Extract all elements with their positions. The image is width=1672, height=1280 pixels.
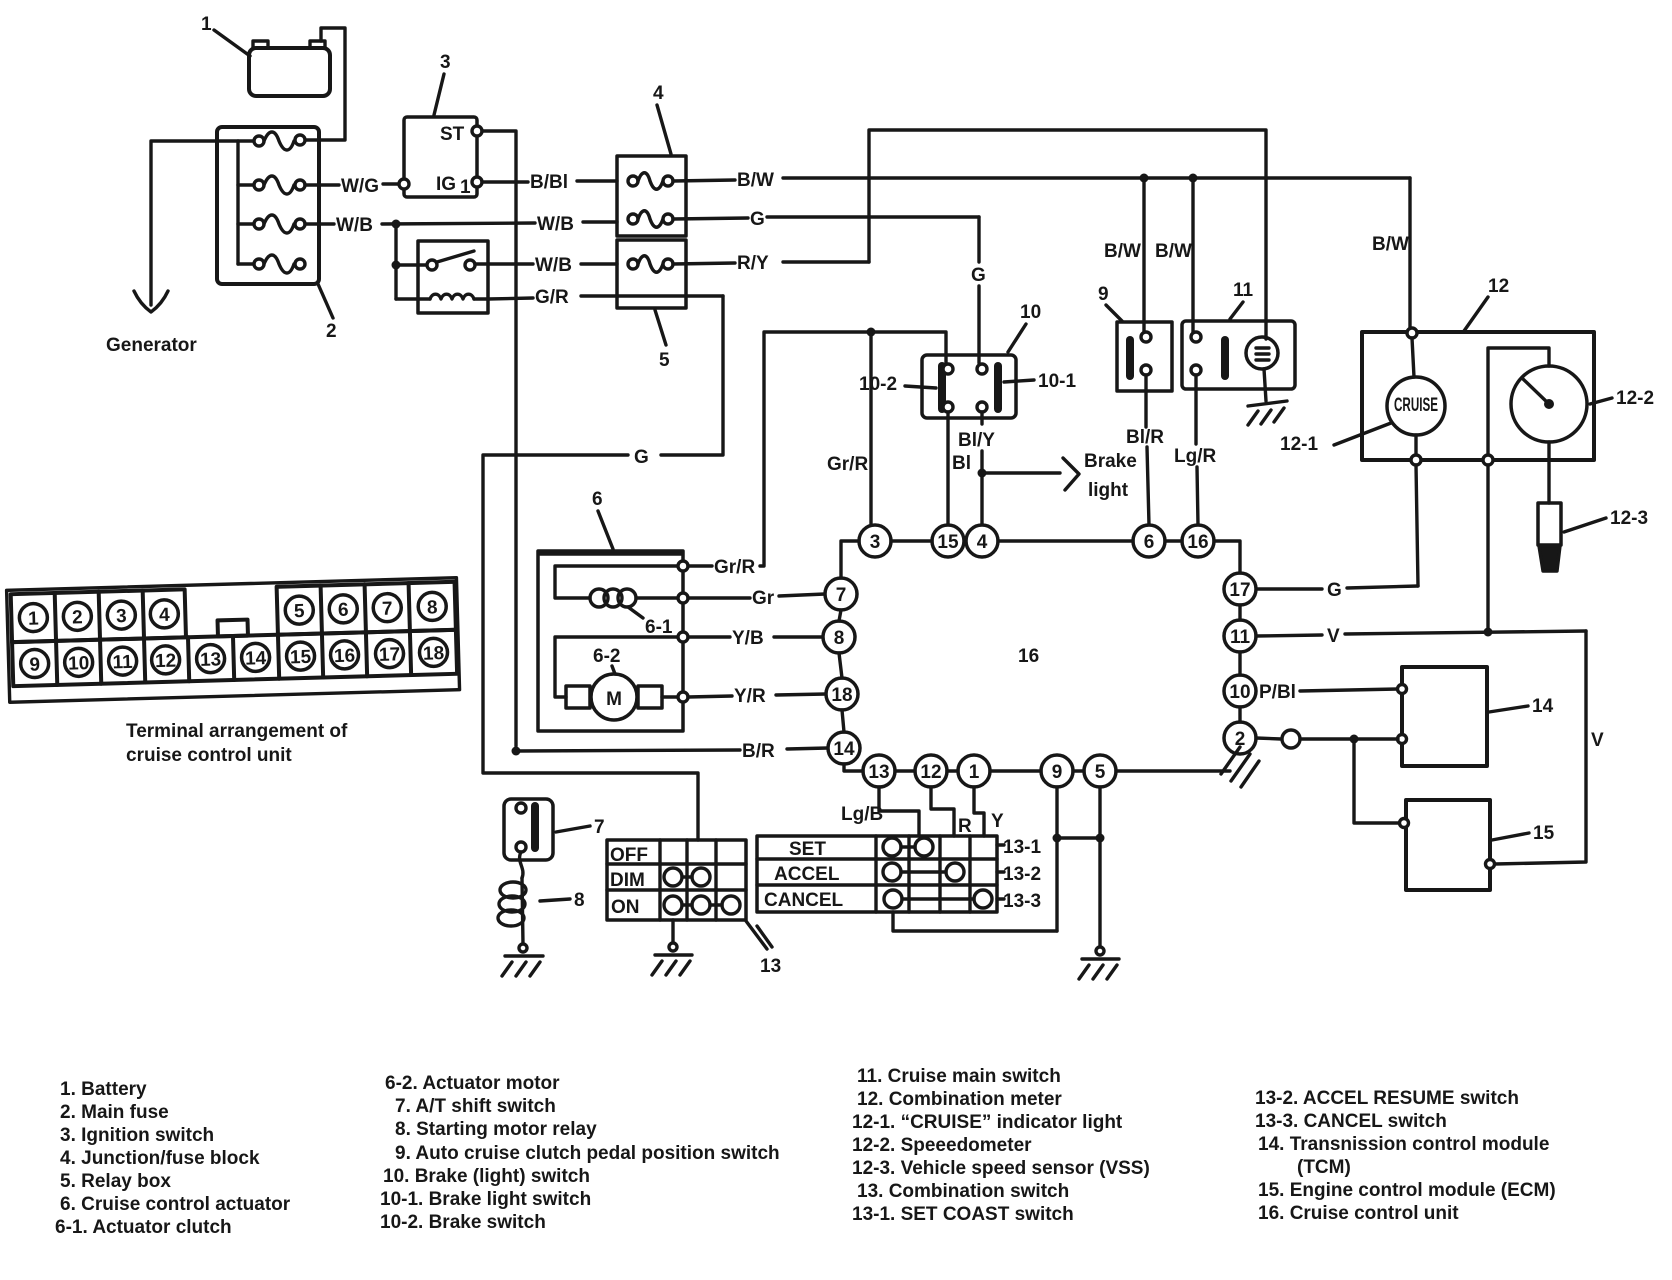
wire Y/B to pin 8 xyxy=(688,628,823,649)
svg-text:Terminal arrangement of: Terminal arrangement of xyxy=(126,721,348,742)
ECM box 15 xyxy=(1400,800,1495,890)
cruise control actuator 6 xyxy=(538,551,683,731)
wire B/R to pin 14 xyxy=(516,741,828,762)
svg-text:13-2: 13-2 xyxy=(1003,864,1041,885)
wire G long run to ON-OFF switch xyxy=(483,296,723,840)
wire speedometer feed xyxy=(1488,348,1549,455)
pin 12 xyxy=(915,755,947,787)
svg-text:Lg/R: Lg/R xyxy=(1174,446,1216,467)
terminal 18 xyxy=(419,638,448,667)
legend column 1 xyxy=(55,1079,291,1238)
wire cruise lamp down xyxy=(1414,435,1417,455)
node B/R junction xyxy=(512,747,521,756)
label 12-1 xyxy=(1280,423,1391,455)
wire Bl/R to pin 6 xyxy=(1126,375,1164,525)
svg-text:G: G xyxy=(971,265,986,286)
svg-text:11: 11 xyxy=(1233,280,1254,301)
pin 7 xyxy=(825,578,857,610)
svg-text:8: 8 xyxy=(574,890,585,911)
label 7 xyxy=(556,817,605,838)
svg-text:4: 4 xyxy=(653,83,664,104)
node actuator pin Y/R xyxy=(678,692,688,702)
svg-text:CANCEL: CANCEL xyxy=(764,890,844,911)
svg-text:18: 18 xyxy=(423,643,445,665)
svg-text:2: 2 xyxy=(326,321,337,342)
svg-text:9: 9 xyxy=(1052,762,1063,783)
legend column 3 xyxy=(852,1066,1150,1225)
lamp in switch 11 xyxy=(1246,337,1278,369)
pin 16 xyxy=(1182,525,1214,557)
svg-text:ACCEL: ACCEL xyxy=(774,864,840,885)
svg-text:Bl/R: Bl/R xyxy=(1126,427,1164,448)
svg-text:6-2. Actuator motor: 6-2. Actuator motor xyxy=(385,1073,560,1094)
svg-text:W/G: W/G xyxy=(341,176,379,197)
wire W/B branch to relay xyxy=(394,224,397,299)
label 4 (junction/fuse block) xyxy=(653,83,671,154)
svg-text:9. Auto cruise clutch pedal po: 9. Auto cruise clutch pedal position swi… xyxy=(395,1143,780,1164)
svg-text:5. Relay box: 5. Relay box xyxy=(60,1171,171,1192)
node brake light tap xyxy=(978,469,987,478)
terminal 13 xyxy=(196,644,225,673)
wire B/W to box11 xyxy=(1155,178,1193,332)
label 6-1 xyxy=(628,607,673,638)
svg-text:B/W: B/W xyxy=(1155,241,1192,262)
SET COAST contacts 13-1 xyxy=(883,837,1041,858)
terminal arrangement caption xyxy=(126,721,348,766)
wire generator feed xyxy=(151,141,254,305)
terminal 4 xyxy=(150,600,179,629)
svg-text:Y/R: Y/R xyxy=(734,686,766,707)
svg-text:13-3. CANCEL switch: 13-3. CANCEL switch xyxy=(1255,1111,1447,1132)
wire speedometer to VSS xyxy=(1547,442,1550,503)
pin 3 xyxy=(859,525,891,557)
svg-text:IG: IG xyxy=(436,174,456,195)
svg-text:15: 15 xyxy=(937,532,959,553)
wire Bl to pin 15 xyxy=(948,412,971,525)
wire pin18 to pin14 xyxy=(842,710,844,732)
wire battery to main fuse xyxy=(305,28,345,140)
label 6-2 xyxy=(593,646,620,674)
label 15 xyxy=(1492,823,1555,844)
label 12 xyxy=(1464,276,1509,331)
svg-text:6-1: 6-1 xyxy=(645,617,673,638)
label 1 (battery) xyxy=(201,14,250,56)
relay box 5 xyxy=(617,240,686,308)
svg-text:M: M xyxy=(606,689,622,710)
terminal 8 xyxy=(418,592,447,621)
label 5 (relay box) xyxy=(655,310,670,371)
svg-text:18: 18 xyxy=(831,685,852,706)
svg-text:10-2. Brake switch: 10-2. Brake switch xyxy=(380,1212,546,1233)
node meter top xyxy=(1407,328,1417,338)
wire Bl/Y to pin 4 xyxy=(958,412,995,525)
svg-text:1: 1 xyxy=(460,177,471,198)
pin 11 xyxy=(1224,620,1256,652)
svg-text:6. Cruise control actuator: 6. Cruise control actuator xyxy=(60,1194,291,1215)
svg-text:10: 10 xyxy=(68,653,90,675)
DIM contacts xyxy=(664,868,710,886)
svg-text:8. Starting motor relay: 8. Starting motor relay xyxy=(395,1119,597,1140)
wire pin17 to pin11 xyxy=(1238,605,1241,620)
svg-text:ON: ON xyxy=(611,897,640,918)
terminal 2 xyxy=(63,602,92,631)
svg-text:3: 3 xyxy=(870,532,881,553)
combination meter 12 xyxy=(1362,332,1594,460)
svg-text:W/B: W/B xyxy=(535,255,572,276)
svg-text:13: 13 xyxy=(868,762,889,783)
svg-text:4: 4 xyxy=(159,605,171,626)
vehicle speed sensor 12-3 xyxy=(1538,503,1561,571)
svg-text:3: 3 xyxy=(440,52,451,73)
combination switch table 13 (SET/ACCEL/CANCEL) xyxy=(757,836,997,912)
pin 18 xyxy=(826,678,858,710)
terminal 16 xyxy=(330,641,359,670)
wire pin1 to pin9 xyxy=(990,769,1041,772)
svg-text:6-2: 6-2 xyxy=(593,646,620,667)
wire Gr/R to pin 3 xyxy=(827,332,871,525)
wire to relay coil xyxy=(396,297,430,300)
svg-text:Y/B: Y/B xyxy=(732,628,764,649)
fuse F4-2 xyxy=(628,211,673,228)
label 8 xyxy=(540,890,585,911)
wire to cruise lamp xyxy=(1412,338,1414,377)
terminal 11 xyxy=(108,647,137,676)
svg-text:12-3. Vehicle speed sensor (VS: 12-3. Vehicle speed sensor (VSS) xyxy=(852,1158,1150,1179)
node B/W to box11 xyxy=(1189,174,1198,183)
wire to relay switch xyxy=(396,263,427,266)
wire pin9 to pin5 xyxy=(1073,769,1084,772)
wire pin8 to pin18 xyxy=(839,653,842,678)
svg-text:13-1. SET COAST switch: 13-1. SET COAST switch xyxy=(852,1204,1074,1225)
chassis ground right of pin5 xyxy=(1221,747,1259,787)
svg-text:B/Bl: B/Bl xyxy=(530,172,568,193)
svg-text:9: 9 xyxy=(29,654,40,675)
svg-text:R: R xyxy=(958,816,972,837)
svg-text:10-1. Brake light switch: 10-1. Brake light switch xyxy=(380,1189,591,1210)
svg-text:13-2. ACCEL RESUME switch: 13-2. ACCEL RESUME switch xyxy=(1255,1088,1519,1109)
node meter bottom left xyxy=(1411,455,1421,465)
wire to starting motor relay coil xyxy=(520,852,523,878)
wire Y pin1 to combination switch xyxy=(974,787,1004,836)
svg-text:3: 3 xyxy=(116,606,127,627)
wire Lg/B pin13 to combination switch xyxy=(841,787,919,836)
legend column 4 xyxy=(1255,1088,1556,1224)
wire W/B from main fuse xyxy=(305,214,617,236)
wire V pin11 to ECM xyxy=(1256,626,1604,864)
A/T shift switch 7 xyxy=(504,799,553,860)
label 2 (main fuse) xyxy=(318,284,337,342)
label 10 xyxy=(1008,302,1041,352)
terminal 10 xyxy=(64,648,93,677)
CANCEL contacts 13-3 xyxy=(884,890,1041,912)
svg-text:14: 14 xyxy=(1532,696,1554,717)
svg-text:6: 6 xyxy=(338,600,349,621)
svg-text:12-1: 12-1 xyxy=(1280,434,1318,455)
wire pin13 to pin12 xyxy=(895,769,915,772)
wire pin3 to pin15 xyxy=(891,539,932,542)
pin 2 xyxy=(1224,722,1256,754)
svg-text:12: 12 xyxy=(1488,276,1509,297)
svg-text:5: 5 xyxy=(1095,762,1106,783)
svg-text:2: 2 xyxy=(72,607,83,628)
svg-text:G: G xyxy=(634,447,649,468)
wire pin4 to pin6 xyxy=(998,539,1133,542)
svg-text:1: 1 xyxy=(28,608,40,629)
svg-text:Lg/B: Lg/B xyxy=(841,804,883,825)
ON contacts xyxy=(664,896,740,914)
svg-text:12-2: 12-2 xyxy=(1616,388,1654,409)
wire ST to A/T shift column xyxy=(482,131,516,746)
svg-text:12: 12 xyxy=(920,762,941,783)
svg-text:6: 6 xyxy=(592,489,603,510)
svg-text:12-1. “CRUISE” indicator light: 12-1. “CRUISE” indicator light xyxy=(852,1112,1123,1133)
wire branch to ECM xyxy=(1354,739,1400,823)
svg-text:2. Main fuse: 2. Main fuse xyxy=(60,1102,169,1123)
wire pin3 to pin7 xyxy=(841,541,859,578)
wire P/Bl pin10 to TCM xyxy=(1259,682,1398,703)
svg-text:9: 9 xyxy=(1098,284,1109,305)
wire Y/R to pin 18 xyxy=(688,686,826,707)
wire W/G xyxy=(305,176,399,197)
main fuse box 2 xyxy=(217,127,319,284)
actuator clutch coil 6-1 xyxy=(555,566,678,607)
combination switch lighting table (OFF/DIM/ON) xyxy=(607,840,746,920)
svg-text:Bl/Y: Bl/Y xyxy=(958,430,995,451)
pin 1 xyxy=(958,755,990,787)
fuse F2-2 xyxy=(254,176,305,194)
svg-text:13: 13 xyxy=(760,956,781,977)
label 10-1 xyxy=(1004,371,1076,392)
wire R pin12 to combination switch xyxy=(931,787,972,837)
clutch pedal position switch 9 xyxy=(1117,322,1172,391)
svg-text:15. Engine control module (ECM: 15. Engine control module (ECM) xyxy=(1258,1180,1556,1201)
svg-text:G: G xyxy=(750,209,765,230)
fuse F2-3 xyxy=(254,215,305,233)
wire Lg/R to pin 16 xyxy=(1174,375,1216,525)
svg-text:G: G xyxy=(1327,580,1342,601)
svg-text:10: 10 xyxy=(1020,302,1041,323)
relay (in relay box) xyxy=(418,241,488,313)
fuse F2-1 xyxy=(254,132,305,150)
wire Gr/R xyxy=(688,332,946,578)
svg-text:7. A/T shift switch: 7. A/T shift switch xyxy=(395,1096,556,1117)
svg-text:B/W: B/W xyxy=(1104,241,1141,262)
svg-text:8: 8 xyxy=(427,597,438,618)
svg-text:13-3: 13-3 xyxy=(1003,891,1041,912)
svg-text:B/W: B/W xyxy=(1372,234,1409,255)
CRUISE indicator light 12-1 xyxy=(1387,377,1445,435)
svg-text:13. Combination switch: 13. Combination switch xyxy=(857,1181,1069,1202)
svg-text:1: 1 xyxy=(201,14,212,35)
pin 13 xyxy=(863,755,895,787)
svg-text:6: 6 xyxy=(1144,532,1155,553)
pin 9 xyxy=(1041,755,1073,787)
label 12-2 xyxy=(1590,388,1654,409)
label 3 (ignition switch) xyxy=(434,52,451,115)
wire B/Bl from IG1 xyxy=(482,172,617,193)
label 9 xyxy=(1098,284,1122,321)
svg-text:13-1: 13-1 xyxy=(1003,837,1041,858)
node meter bottom mid xyxy=(1483,455,1493,465)
wire W/B relay to relay box 5 xyxy=(475,255,617,276)
label 11 xyxy=(1230,280,1254,319)
junction fuse block 4 xyxy=(617,156,686,236)
battery B1 xyxy=(249,41,330,96)
terminal 3 xyxy=(107,601,136,630)
svg-text:3. Ignition switch: 3. Ignition switch xyxy=(60,1125,214,1146)
node V junction xyxy=(1484,628,1493,637)
svg-text:G/R: G/R xyxy=(535,287,569,308)
svg-text:P/Bl: P/Bl xyxy=(1259,682,1296,703)
wire pin5 down to ground xyxy=(1098,787,1101,948)
brake switch 10 xyxy=(922,355,1016,418)
actuator motor 6-2 xyxy=(555,637,678,720)
wire R/Y xyxy=(673,130,1266,339)
terminal 15 xyxy=(286,642,315,671)
ground below coil 8 xyxy=(502,944,543,976)
node pin5 link xyxy=(1096,834,1105,843)
node pin2 branch xyxy=(1350,735,1359,744)
fuse F4-1 xyxy=(628,173,673,190)
svg-text:(TCM): (TCM) xyxy=(1297,1157,1351,1178)
starting motor relay coil 8 xyxy=(498,878,526,944)
svg-text:OFF: OFF xyxy=(610,845,648,866)
wire pin5 to chassis xyxy=(1116,769,1230,772)
pin 5 xyxy=(1084,755,1116,787)
node actuator pin Gr xyxy=(678,593,688,603)
wire speedo feed to V junction xyxy=(1486,465,1489,633)
label 14 xyxy=(1489,696,1554,717)
wire pin9 to pin5 column xyxy=(1057,836,1100,839)
svg-text:17: 17 xyxy=(1229,580,1250,601)
terminal 14 xyxy=(241,643,270,672)
node Gr/R junction xyxy=(867,328,876,337)
label 13 xyxy=(746,921,781,977)
pin 4 xyxy=(966,525,998,557)
svg-text:7: 7 xyxy=(382,599,393,620)
ground under lamp xyxy=(1248,401,1287,425)
wire Gr to pin 7 xyxy=(688,588,825,609)
svg-text:1. Battery: 1. Battery xyxy=(60,1079,147,1100)
node B/W to box9 xyxy=(1140,174,1149,183)
terminal 17 xyxy=(375,639,404,668)
svg-text:12-3: 12-3 xyxy=(1610,508,1648,529)
wire pin10 to pin2 xyxy=(1238,707,1241,722)
pin 10 xyxy=(1224,675,1256,707)
wire G pin17 to meter xyxy=(1256,465,1418,601)
svg-text:16: 16 xyxy=(334,646,356,668)
svg-text:ST: ST xyxy=(440,124,465,145)
wire pin6 to pin16 xyxy=(1165,539,1182,542)
svg-text:10: 10 xyxy=(1229,682,1250,703)
svg-text:11: 11 xyxy=(1230,627,1251,648)
generator arrow xyxy=(134,291,168,312)
svg-text:14. Transnission control modul: 14. Transnission control module xyxy=(1258,1134,1549,1155)
ground below pin5 xyxy=(1079,947,1119,979)
pin 15 xyxy=(932,525,964,557)
pin 14 xyxy=(828,732,860,764)
svg-text:cruise control unit: cruise control unit xyxy=(126,745,292,766)
svg-text:1: 1 xyxy=(969,762,980,783)
wire B/W top xyxy=(673,170,1410,328)
node relay switch feed xyxy=(392,261,401,270)
fuse F5-1 xyxy=(628,256,673,273)
svg-text:16. Cruise control unit: 16. Cruise control unit xyxy=(1258,1203,1459,1224)
svg-text:Gr/R: Gr/R xyxy=(827,454,868,475)
legend column 2 xyxy=(380,1073,780,1233)
fuse F2-4 xyxy=(254,255,305,273)
svg-text:12: 12 xyxy=(155,651,177,673)
terminal 12 xyxy=(151,646,180,675)
node actuator pin Y/B xyxy=(678,632,688,642)
svg-text:7: 7 xyxy=(594,817,605,838)
svg-text:W/B: W/B xyxy=(336,215,373,236)
svg-text:V: V xyxy=(1591,730,1604,751)
wire pin2 output xyxy=(1256,730,1398,748)
svg-text:SET: SET xyxy=(789,839,826,860)
svg-text:17: 17 xyxy=(379,644,401,666)
svg-text:B/R: B/R xyxy=(742,741,775,762)
node W/B junction xyxy=(392,220,401,229)
svg-text:10-1: 10-1 xyxy=(1038,371,1076,392)
wire G from fuse block xyxy=(673,209,986,363)
wire pin16 to pin17 xyxy=(1214,541,1240,573)
speedometer 12-2 xyxy=(1511,366,1587,442)
svg-text:10-2: 10-2 xyxy=(859,374,897,395)
node pin9 link xyxy=(1053,834,1062,843)
wire pin12 to pin1 xyxy=(947,769,958,772)
svg-text:12-2. Speeedometer: 12-2. Speeedometer xyxy=(852,1135,1032,1156)
terminal arrangement of cruise control unit xyxy=(7,578,460,703)
svg-text:CRUISE: CRUISE xyxy=(1394,395,1438,416)
terminal 5 xyxy=(285,596,314,625)
svg-text:5: 5 xyxy=(659,350,670,371)
svg-text:11. Cruise main switch: 11. Cruise main switch xyxy=(857,1066,1061,1087)
svg-text:11: 11 xyxy=(112,652,133,674)
wire combination switch return xyxy=(893,912,1057,931)
wire lamp to ground xyxy=(1264,369,1266,401)
label 12-3 xyxy=(1564,508,1648,532)
ground below lighting table xyxy=(652,920,692,975)
svg-text:15: 15 xyxy=(290,647,312,669)
wire B/W to box9 xyxy=(1104,178,1144,332)
wire pin14 to pin13 xyxy=(844,764,863,771)
wire pin7 to pin8 xyxy=(839,610,841,621)
label 10-2 xyxy=(859,374,936,395)
svg-text:Brake: Brake xyxy=(1084,451,1137,472)
ignition switch 3 xyxy=(399,117,482,198)
svg-text:DIM: DIM xyxy=(610,870,645,891)
svg-text:14: 14 xyxy=(245,648,267,670)
svg-text:5: 5 xyxy=(294,601,306,622)
svg-text:4: 4 xyxy=(977,532,988,553)
svg-text:12. Combination meter: 12. Combination meter xyxy=(857,1089,1062,1110)
wire brake light arrow xyxy=(982,451,1137,501)
svg-text:Gr: Gr xyxy=(752,588,775,609)
TCM box 14 xyxy=(1398,667,1488,766)
svg-text:16: 16 xyxy=(1187,532,1208,553)
wire pin11 to pin10 xyxy=(1238,652,1241,675)
svg-text:B/W: B/W xyxy=(737,170,774,191)
pin 6 xyxy=(1133,525,1165,557)
svg-text:4. Junction/fuse block: 4. Junction/fuse block xyxy=(60,1148,260,1169)
label 6 (actuator) xyxy=(592,489,613,549)
svg-text:8: 8 xyxy=(834,628,845,649)
svg-text:light: light xyxy=(1088,480,1129,501)
terminal 7 xyxy=(373,593,402,622)
svg-text:16: 16 xyxy=(1018,646,1039,667)
svg-text:R/Y: R/Y xyxy=(737,253,769,274)
